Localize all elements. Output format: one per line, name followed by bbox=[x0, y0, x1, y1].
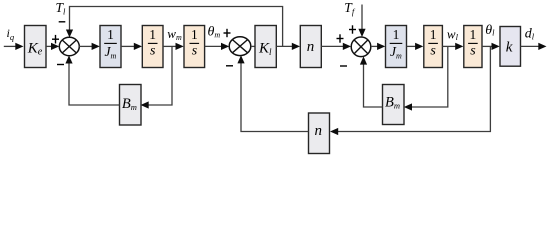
plus sign S3 left bbox=[337, 34, 344, 42]
svg-text:s: s bbox=[150, 43, 156, 58]
wire n bottom output up into S2 bottom bbox=[237, 55, 308, 131]
summing junction S1 bbox=[59, 37, 79, 55]
svg-text:n: n bbox=[307, 39, 315, 55]
svg-text:1: 1 bbox=[149, 27, 156, 42]
svg-text:s: s bbox=[430, 43, 436, 58]
plus sign S3 top bbox=[349, 25, 356, 33]
wire Kl to n with Tl tap junction bbox=[276, 43, 300, 50]
stiffness block Kl bbox=[255, 26, 276, 68]
gear ratio block n top bbox=[300, 26, 321, 68]
wire integrator3 to integrator4 with wl tap bbox=[442, 43, 463, 50]
gain block Ke bbox=[25, 26, 47, 68]
wire 1/Jm to integrator 1 bbox=[121, 43, 142, 50]
gain block k bbox=[500, 27, 521, 67]
wire integrator2 to summing junction S2 bbox=[205, 43, 230, 50]
svg-text:s: s bbox=[470, 43, 476, 58]
wire S3 to 1/Jl bbox=[371, 43, 386, 50]
svg-text:s: s bbox=[192, 43, 198, 58]
friction block Bm left bbox=[120, 85, 142, 126]
block 1/Jm load inertia bbox=[386, 26, 407, 68]
summing junction S2 bbox=[229, 37, 251, 56]
wire Tl top rail from Kl output tap down into S1 bbox=[66, 7, 283, 47]
wire S1 to 1/Jm bbox=[79, 43, 100, 50]
minus sign S1 top bbox=[59, 21, 66, 23]
wire 1/Jl to integrator 3 bbox=[407, 43, 424, 50]
svg-text:n: n bbox=[315, 123, 323, 139]
wire integrator4 to k with theta_l tap bbox=[482, 43, 500, 50]
svg-text:1: 1 bbox=[470, 27, 477, 42]
wire S2 to Kl bbox=[251, 45, 255, 47]
plus sign S2 left bbox=[224, 29, 231, 37]
minus sign S3 bottom bbox=[340, 65, 347, 67]
wire Bm right output up into S3 bottom bbox=[360, 56, 383, 107]
minus sign S1 bottom bbox=[57, 64, 64, 66]
svg-text:1: 1 bbox=[107, 27, 114, 42]
wire wm tap down to Bm left bbox=[141, 46, 173, 108]
wire Tf input down into S3 bbox=[358, 5, 365, 38]
wire Bm left output up into S1 bottom bbox=[65, 56, 119, 106]
plus sign S1 left bbox=[52, 35, 59, 44]
wire Ke to summing junction S1 bbox=[46, 43, 59, 50]
gear ratio block n bottom bbox=[309, 113, 330, 154]
summing junction S3 bbox=[351, 37, 371, 57]
friction block Bm right bbox=[383, 85, 405, 125]
wire input iq to Ke bbox=[4, 43, 24, 50]
block 1/Jm motor inertia bbox=[100, 26, 121, 68]
wire wl tap down to Bm right bbox=[404, 46, 448, 110]
svg-text:1: 1 bbox=[191, 27, 198, 42]
svg-text:1: 1 bbox=[430, 27, 437, 42]
integrator block 1/s (load angle) bbox=[464, 26, 482, 68]
wire theta_l tap down along bottom rail to n bottom bbox=[330, 46, 490, 135]
minus sign S2 bottom bbox=[226, 65, 233, 67]
integrator block 1/s (motor speed) bbox=[142, 26, 163, 68]
integrator block 1/s (motor angle) bbox=[184, 26, 205, 68]
wire n to summing junction S3 bbox=[321, 43, 351, 50]
svg-text:1: 1 bbox=[393, 27, 400, 42]
wire integrator1 to integrator2 with wm tap bbox=[163, 43, 184, 50]
wire output k to dl bbox=[521, 43, 547, 50]
integrator block 1/s (load speed) bbox=[424, 26, 443, 68]
svg-text:k: k bbox=[506, 39, 513, 55]
